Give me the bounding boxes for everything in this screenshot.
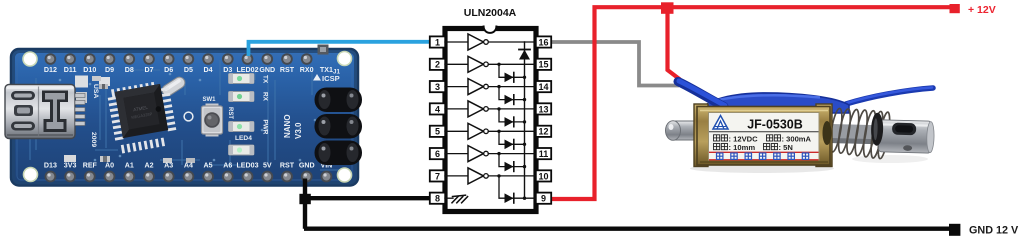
svg-text:: 5N: : 5N xyxy=(779,143,793,152)
svg-text:3: 3 xyxy=(435,82,440,92)
svg-text:6: 6 xyxy=(435,149,440,159)
pin 6 xyxy=(430,148,445,159)
pin 2 xyxy=(430,59,445,70)
svg-text:A6: A6 xyxy=(223,162,232,170)
svg-text:3V3: 3V3 xyxy=(64,162,77,170)
nano PCB xyxy=(11,49,358,186)
svg-text:+ 12V: + 12V xyxy=(968,4,996,16)
svg-text:A4: A4 xyxy=(184,162,193,170)
svg-text:JF-0530B: JF-0530B xyxy=(747,118,803,132)
solenoid coil wrap blue top xyxy=(698,93,849,113)
svg-text:RST: RST xyxy=(280,162,295,170)
svg-text:GND: GND xyxy=(299,162,315,170)
svg-text:GND: GND xyxy=(259,66,275,74)
pin 9 xyxy=(536,193,551,204)
pin 10 xyxy=(536,170,551,181)
pin 14 xyxy=(536,81,551,92)
svg-text:D3: D3 xyxy=(223,66,232,74)
diode D7 (to COM) xyxy=(497,174,500,177)
pin 16 xyxy=(536,36,551,47)
plunger stopper left xyxy=(674,121,700,140)
svg-text:4: 4 xyxy=(435,104,440,114)
junction red node xyxy=(661,2,674,14)
driver buffer ch5 xyxy=(445,130,468,132)
solenoid lead wire blue right tail xyxy=(846,88,933,104)
wire red pin9 to +12V rail xyxy=(550,7,951,199)
plunger shaft / spring / rod assembly xyxy=(825,107,934,160)
MCU U2 ATmega328 xyxy=(106,80,178,155)
svg-text:LED4: LED4 xyxy=(235,135,252,142)
svg-text:GND 12 V: GND 12 V xyxy=(969,225,1019,237)
arduino nano board xyxy=(5,45,362,186)
pin 12 xyxy=(536,126,551,137)
svg-text:NANO: NANO xyxy=(283,114,292,138)
header pins bottom row xyxy=(45,171,333,183)
pin 3 xyxy=(430,81,445,92)
solenoid JF-0530B xyxy=(666,81,935,173)
USB mini-B connector J2 xyxy=(5,85,85,139)
reset button SW1 xyxy=(206,104,219,109)
svg-text:D11: D11 xyxy=(64,66,77,74)
header pins top row xyxy=(45,53,313,65)
driver buffer ch6 xyxy=(445,153,468,155)
usb shell slots xyxy=(11,91,35,100)
svg-text:D8: D8 xyxy=(125,66,134,74)
solenoid lead wire blue left xyxy=(678,82,724,107)
pin 11 xyxy=(536,148,551,159)
ICSP header J1 xyxy=(315,88,363,166)
svg-text:PWR: PWR xyxy=(262,120,269,135)
svg-text:D10: D10 xyxy=(83,66,96,74)
svg-text:A2: A2 xyxy=(144,162,153,170)
usb anchor stamp xyxy=(42,91,68,133)
terminal GND 12V xyxy=(949,224,960,236)
svg-text:14: 14 xyxy=(538,82,548,92)
svg-text:11: 11 xyxy=(539,149,549,159)
label spec line 2 xyxy=(714,144,720,150)
svg-text:USA: USA xyxy=(92,84,99,98)
svg-text:V3.0: V3.0 xyxy=(294,122,303,139)
wire grey pin16 to solenoid xyxy=(550,42,679,86)
smd passives xyxy=(64,76,195,164)
svg-text:9: 9 xyxy=(541,194,546,204)
svg-text:12: 12 xyxy=(538,127,548,137)
svg-text:LED02: LED02 xyxy=(236,66,258,74)
wire black GND from board xyxy=(303,179,307,229)
diode D1 (to COM) xyxy=(519,49,530,51)
silkscreen labels bottom xyxy=(44,162,332,170)
label red band with chinese xyxy=(709,151,819,153)
svg-text:: 300mA: : 300mA xyxy=(782,134,812,143)
plunger rod xyxy=(879,120,932,153)
driver buffer ch2 xyxy=(445,63,468,65)
svg-text:A5: A5 xyxy=(204,162,213,170)
svg-text:5: 5 xyxy=(435,127,440,137)
pcb traces xyxy=(30,60,345,170)
U1 body xyxy=(445,29,536,212)
COM bus wire xyxy=(524,42,526,198)
pin 4 xyxy=(430,103,445,114)
svg-text:D4: D4 xyxy=(204,66,213,74)
diode D2 (to COM) xyxy=(497,63,500,66)
svg-text:RX: RX xyxy=(262,92,269,102)
svg-text:ULN2004A: ULN2004A xyxy=(464,7,517,19)
svg-text:D9: D9 xyxy=(105,66,114,74)
driver buffer ch3 xyxy=(445,86,468,88)
svg-text:: 10mm: : 10mm xyxy=(729,143,756,152)
pin 15 xyxy=(536,59,551,70)
svg-text:A1: A1 xyxy=(125,162,134,170)
svg-text:5V: 5V xyxy=(263,162,272,170)
driver buffer ch4 xyxy=(445,108,468,110)
svg-text:8: 8 xyxy=(435,194,440,204)
svg-text:2: 2 xyxy=(435,60,440,70)
solenoid label plate xyxy=(709,113,820,161)
svg-text:RX0: RX0 xyxy=(300,66,314,74)
pin 13 xyxy=(536,103,551,114)
rod slot hole xyxy=(892,123,916,136)
pin 8 xyxy=(430,193,445,204)
svg-text:ICSP: ICSP xyxy=(322,74,340,83)
ground symbol pin8 xyxy=(445,197,453,199)
junction black node xyxy=(299,194,310,204)
driver buffer ch7 xyxy=(445,175,468,177)
svg-text:TX1: TX1 xyxy=(320,66,333,74)
svg-text:D7: D7 xyxy=(144,66,153,74)
svg-text:: 12VDC: : 12VDC xyxy=(729,134,759,143)
wire red junction to solenoid xyxy=(668,13,681,80)
svg-text:10: 10 xyxy=(538,171,548,181)
LEDs TX RX PWR L xyxy=(229,74,255,156)
pin 7 xyxy=(430,170,445,181)
silkscreen labels top xyxy=(44,66,333,74)
svg-text:15: 15 xyxy=(538,60,548,70)
driver buffer ch1 xyxy=(445,41,468,43)
pad TX1 square xyxy=(318,45,329,55)
svg-text:A3: A3 xyxy=(164,162,173,170)
diode D3 (to COM) xyxy=(497,85,500,88)
svg-text:D5: D5 xyxy=(184,66,193,74)
svg-text:SW1: SW1 xyxy=(203,97,217,103)
svg-text:2009: 2009 xyxy=(90,132,97,147)
svg-text:REF: REF xyxy=(83,162,98,170)
logo xyxy=(713,116,728,130)
IC U1 ULN2004A xyxy=(430,7,551,212)
U1 notch xyxy=(484,19,497,32)
svg-text:16: 16 xyxy=(538,37,548,47)
svg-text:TX: TX xyxy=(262,75,269,84)
terminal +12V xyxy=(950,4,960,13)
label spec line 1 xyxy=(714,135,720,141)
right plate hole xyxy=(823,121,832,145)
wire black to pin8 xyxy=(306,196,431,200)
diode D6 (to COM) xyxy=(497,152,500,155)
svg-text:D13: D13 xyxy=(44,162,57,170)
svg-text:D12: D12 xyxy=(44,66,57,74)
crystal Y1 xyxy=(160,75,187,98)
svg-text:LED03: LED03 xyxy=(236,162,258,170)
svg-text:1: 1 xyxy=(435,37,440,47)
svg-text:RST: RST xyxy=(227,107,233,119)
wire black bottom GND rail xyxy=(304,226,951,230)
mounting holes xyxy=(22,51,38,67)
svg-text:D6: D6 xyxy=(164,66,173,74)
shadow xyxy=(690,164,834,173)
diode D5 (to COM) xyxy=(497,130,500,133)
svg-text:13: 13 xyxy=(538,104,548,114)
svg-text:7: 7 xyxy=(435,171,440,181)
wire blue D2 to pin1 xyxy=(249,42,432,56)
spring xyxy=(828,108,892,160)
svg-text:RST: RST xyxy=(280,66,295,74)
pin 5 xyxy=(430,126,445,137)
solenoid frame body xyxy=(694,104,708,167)
usb smd pins xyxy=(75,94,85,126)
diode D4 (to COM) xyxy=(497,107,500,110)
svg-text:A0: A0 xyxy=(105,162,114,170)
pin 1 xyxy=(430,36,445,47)
washer xyxy=(871,113,884,146)
